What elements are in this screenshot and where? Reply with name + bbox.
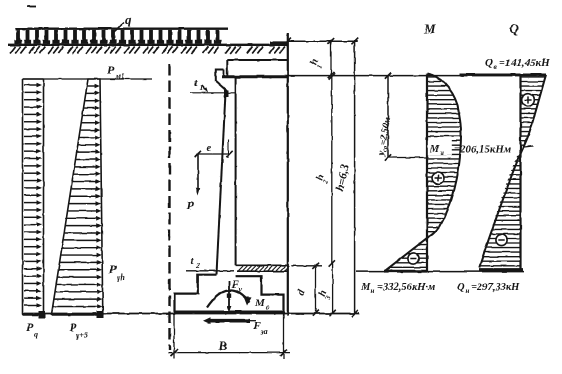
svg-text:за: за (260, 327, 268, 336)
svg-text:d: d (295, 288, 307, 297)
svg-text:P: P (26, 320, 34, 334)
svg-text:м1: м1 (115, 72, 125, 81)
svg-text:M: M (429, 144, 440, 155)
svg-text:Q: Q (457, 282, 465, 293)
svg-text:=297,33кН: =297,33кН (471, 282, 520, 293)
svg-text:P: P (187, 198, 195, 212)
svg-text:M: M (254, 297, 266, 309)
svg-text:в: в (494, 62, 498, 71)
svg-text:М: М (423, 21, 436, 36)
svg-text:γ+5: γ+5 (76, 331, 88, 340)
svg-text:и: и (440, 149, 444, 157)
svg-text:q: q (34, 330, 38, 339)
svg-text:t: t (191, 255, 195, 267)
svg-text:e: e (207, 143, 212, 154)
svg-text:=141,45кН: =141,45кН (499, 57, 550, 69)
svg-text:2: 2 (195, 261, 200, 270)
svg-text:н: н (466, 287, 470, 295)
svg-text:=206,15кНм: =206,15кНм (454, 144, 512, 156)
svg-text:h=6,3: h=6,3 (334, 163, 351, 192)
svg-text:Q: Q (485, 57, 493, 69)
svg-text:γh: γh (117, 273, 125, 282)
svg-text:1: 1 (315, 64, 324, 70)
svg-text:В: В (218, 339, 227, 353)
svg-text:=332,56кН·м: =332,56кН·м (377, 282, 435, 293)
svg-text:н: н (371, 287, 375, 295)
svg-text:уср=2,50м: уср=2,50м (376, 116, 394, 158)
svg-text:Q: Q (510, 21, 520, 36)
svg-text:P: P (109, 262, 117, 276)
svg-text:o: o (266, 303, 270, 312)
svg-text:М: М (360, 282, 371, 293)
svg-text:q: q (125, 12, 132, 27)
svg-text:P: P (107, 63, 115, 77)
svg-text:t: t (194, 77, 198, 89)
svg-text:1: 1 (200, 83, 204, 92)
